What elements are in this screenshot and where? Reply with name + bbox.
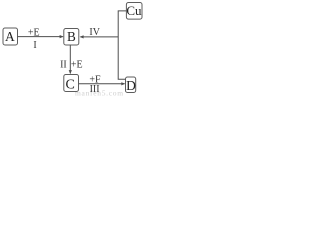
svg-text:I: I <box>33 40 36 51</box>
wire Cu trunk <box>118 11 126 79</box>
svg-text:+E: +E <box>28 28 40 39</box>
background <box>0 0 149 98</box>
svg-text:A: A <box>5 29 15 44</box>
svg-text:D: D <box>126 78 136 93</box>
svg-text:IV: IV <box>89 27 100 38</box>
svg-text:Cu: Cu <box>126 3 142 18</box>
svg-text:III: III <box>90 84 100 95</box>
box C <box>64 75 79 93</box>
svg-text:+E: +E <box>71 59 83 70</box>
wire IV into B <box>80 35 119 38</box>
box A <box>3 28 18 45</box>
box Cu <box>126 3 142 20</box>
box B <box>64 29 79 46</box>
wire B to C <box>69 45 72 74</box>
svg-text:II: II <box>60 59 67 70</box>
box D <box>126 77 137 93</box>
wire C to D <box>79 82 125 85</box>
svg-text:C: C <box>66 77 75 92</box>
svg-text:B: B <box>67 29 76 44</box>
wire A to B <box>18 35 64 38</box>
